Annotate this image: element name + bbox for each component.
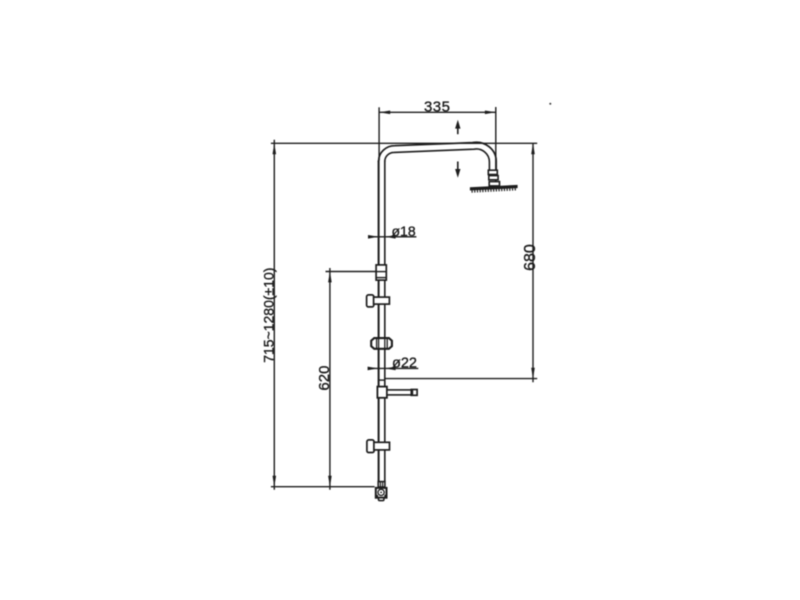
- stray speck: [549, 103, 551, 105]
- dim 335 right extension line: [495, 107, 497, 188]
- svg-text:335: 335: [424, 99, 450, 116]
- dim 680 dimension line: [531, 143, 535, 382]
- tee arm end cap: [411, 390, 417, 396]
- bracket 2 plate: [374, 442, 390, 450]
- up adjust arrow: [455, 120, 460, 134]
- bracket 1 knob: [367, 295, 374, 307]
- dim ø22 dimension line: [368, 367, 419, 371]
- slider coupling: [376, 265, 386, 280]
- shower head swivel band 1: [488, 170, 497, 174]
- bracket 2 knob: [367, 440, 374, 453]
- dim ø18 dimension line: [368, 235, 416, 239]
- barrel knob on pipe: [371, 338, 392, 349]
- dim 335 left extension line: [378, 107, 380, 160]
- dim 335 dimension line: [379, 111, 496, 115]
- svg-text:715~1280(±10): 715~1280(±10): [261, 268, 277, 363]
- svg-text:620: 620: [316, 366, 333, 391]
- bottom ribbed nipple: [378, 482, 385, 487]
- shower arm outer edge: [379, 142, 497, 170]
- top extension line (common for 715~1280 and 680): [271, 142, 537, 144]
- elbow screw circle: [378, 489, 384, 495]
- elbow corner tab right: [384, 495, 387, 498]
- shower head disc: [470, 185, 518, 191]
- svg-text:680: 680: [522, 244, 539, 271]
- tee upper joint line: [378, 379, 385, 381]
- tee arm tube: [387, 390, 411, 395]
- shower head connector nut: [489, 182, 499, 186]
- riser pipe right edge: [384, 161, 386, 482]
- tee block: [377, 387, 387, 398]
- down adjust arrow: [455, 162, 460, 178]
- bottom elbow block: [376, 488, 387, 498]
- riser pipe left edge: [378, 161, 380, 482]
- shower head swivel band 2: [489, 176, 498, 180]
- bracket 1 plate: [374, 297, 390, 304]
- dim 620 dimension line: [328, 268, 332, 490]
- dim 620 extension line: [326, 271, 377, 273]
- elbow bottom nub: [379, 498, 384, 501]
- bottom baseline extension line: [271, 486, 375, 488]
- barrel knob inner lines: [377, 338, 388, 348]
- svg-text:ø18: ø18: [392, 223, 416, 239]
- dim 715~1280 dimension line: [273, 140, 277, 490]
- shower arm inner edge: [385, 149, 490, 171]
- dim 680 bottom extension line: [385, 378, 537, 380]
- elbow corner tab left: [376, 495, 379, 498]
- shower head nozzle fringe: [472, 189, 517, 191]
- svg-text:ø22: ø22: [392, 356, 417, 372]
